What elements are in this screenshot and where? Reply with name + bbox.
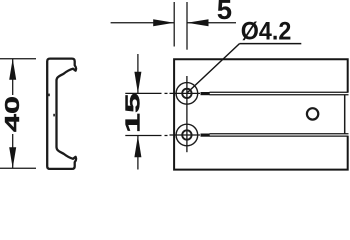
svg-text:15: 15 [122,93,145,133]
svg-text:5: 5 [217,0,232,25]
svg-text:40: 40 [1,96,24,132]
svg-text:Ø4.2: Ø4.2 [241,18,291,46]
